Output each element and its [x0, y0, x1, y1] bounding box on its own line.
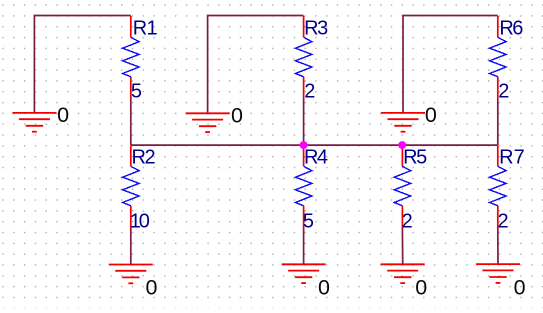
- svg-text:R7: R7: [499, 146, 525, 168]
- svg-text:R4: R4: [304, 146, 328, 168]
- svg-text:0: 0: [514, 275, 526, 299]
- svg-text:0: 0: [145, 276, 157, 300]
- svg-text:2: 2: [498, 81, 509, 103]
- svg-text:0: 0: [318, 276, 330, 300]
- svg-text:5: 5: [131, 81, 142, 103]
- svg-text:2: 2: [498, 211, 509, 233]
- svg-text:R6: R6: [499, 17, 523, 39]
- svg-text:0: 0: [231, 103, 243, 127]
- svg-text:R2: R2: [132, 146, 156, 168]
- svg-text:R5: R5: [403, 146, 427, 168]
- svg-text:0: 0: [425, 103, 437, 127]
- svg-text:R3: R3: [304, 17, 328, 39]
- svg-text:0: 0: [57, 103, 69, 127]
- svg-text:0: 0: [415, 276, 427, 300]
- svg-text:10: 10: [130, 211, 150, 233]
- svg-text:R1: R1: [133, 17, 158, 39]
- svg-text:2: 2: [402, 211, 413, 233]
- svg-text:5: 5: [303, 211, 314, 233]
- svg-text:2: 2: [304, 81, 315, 103]
